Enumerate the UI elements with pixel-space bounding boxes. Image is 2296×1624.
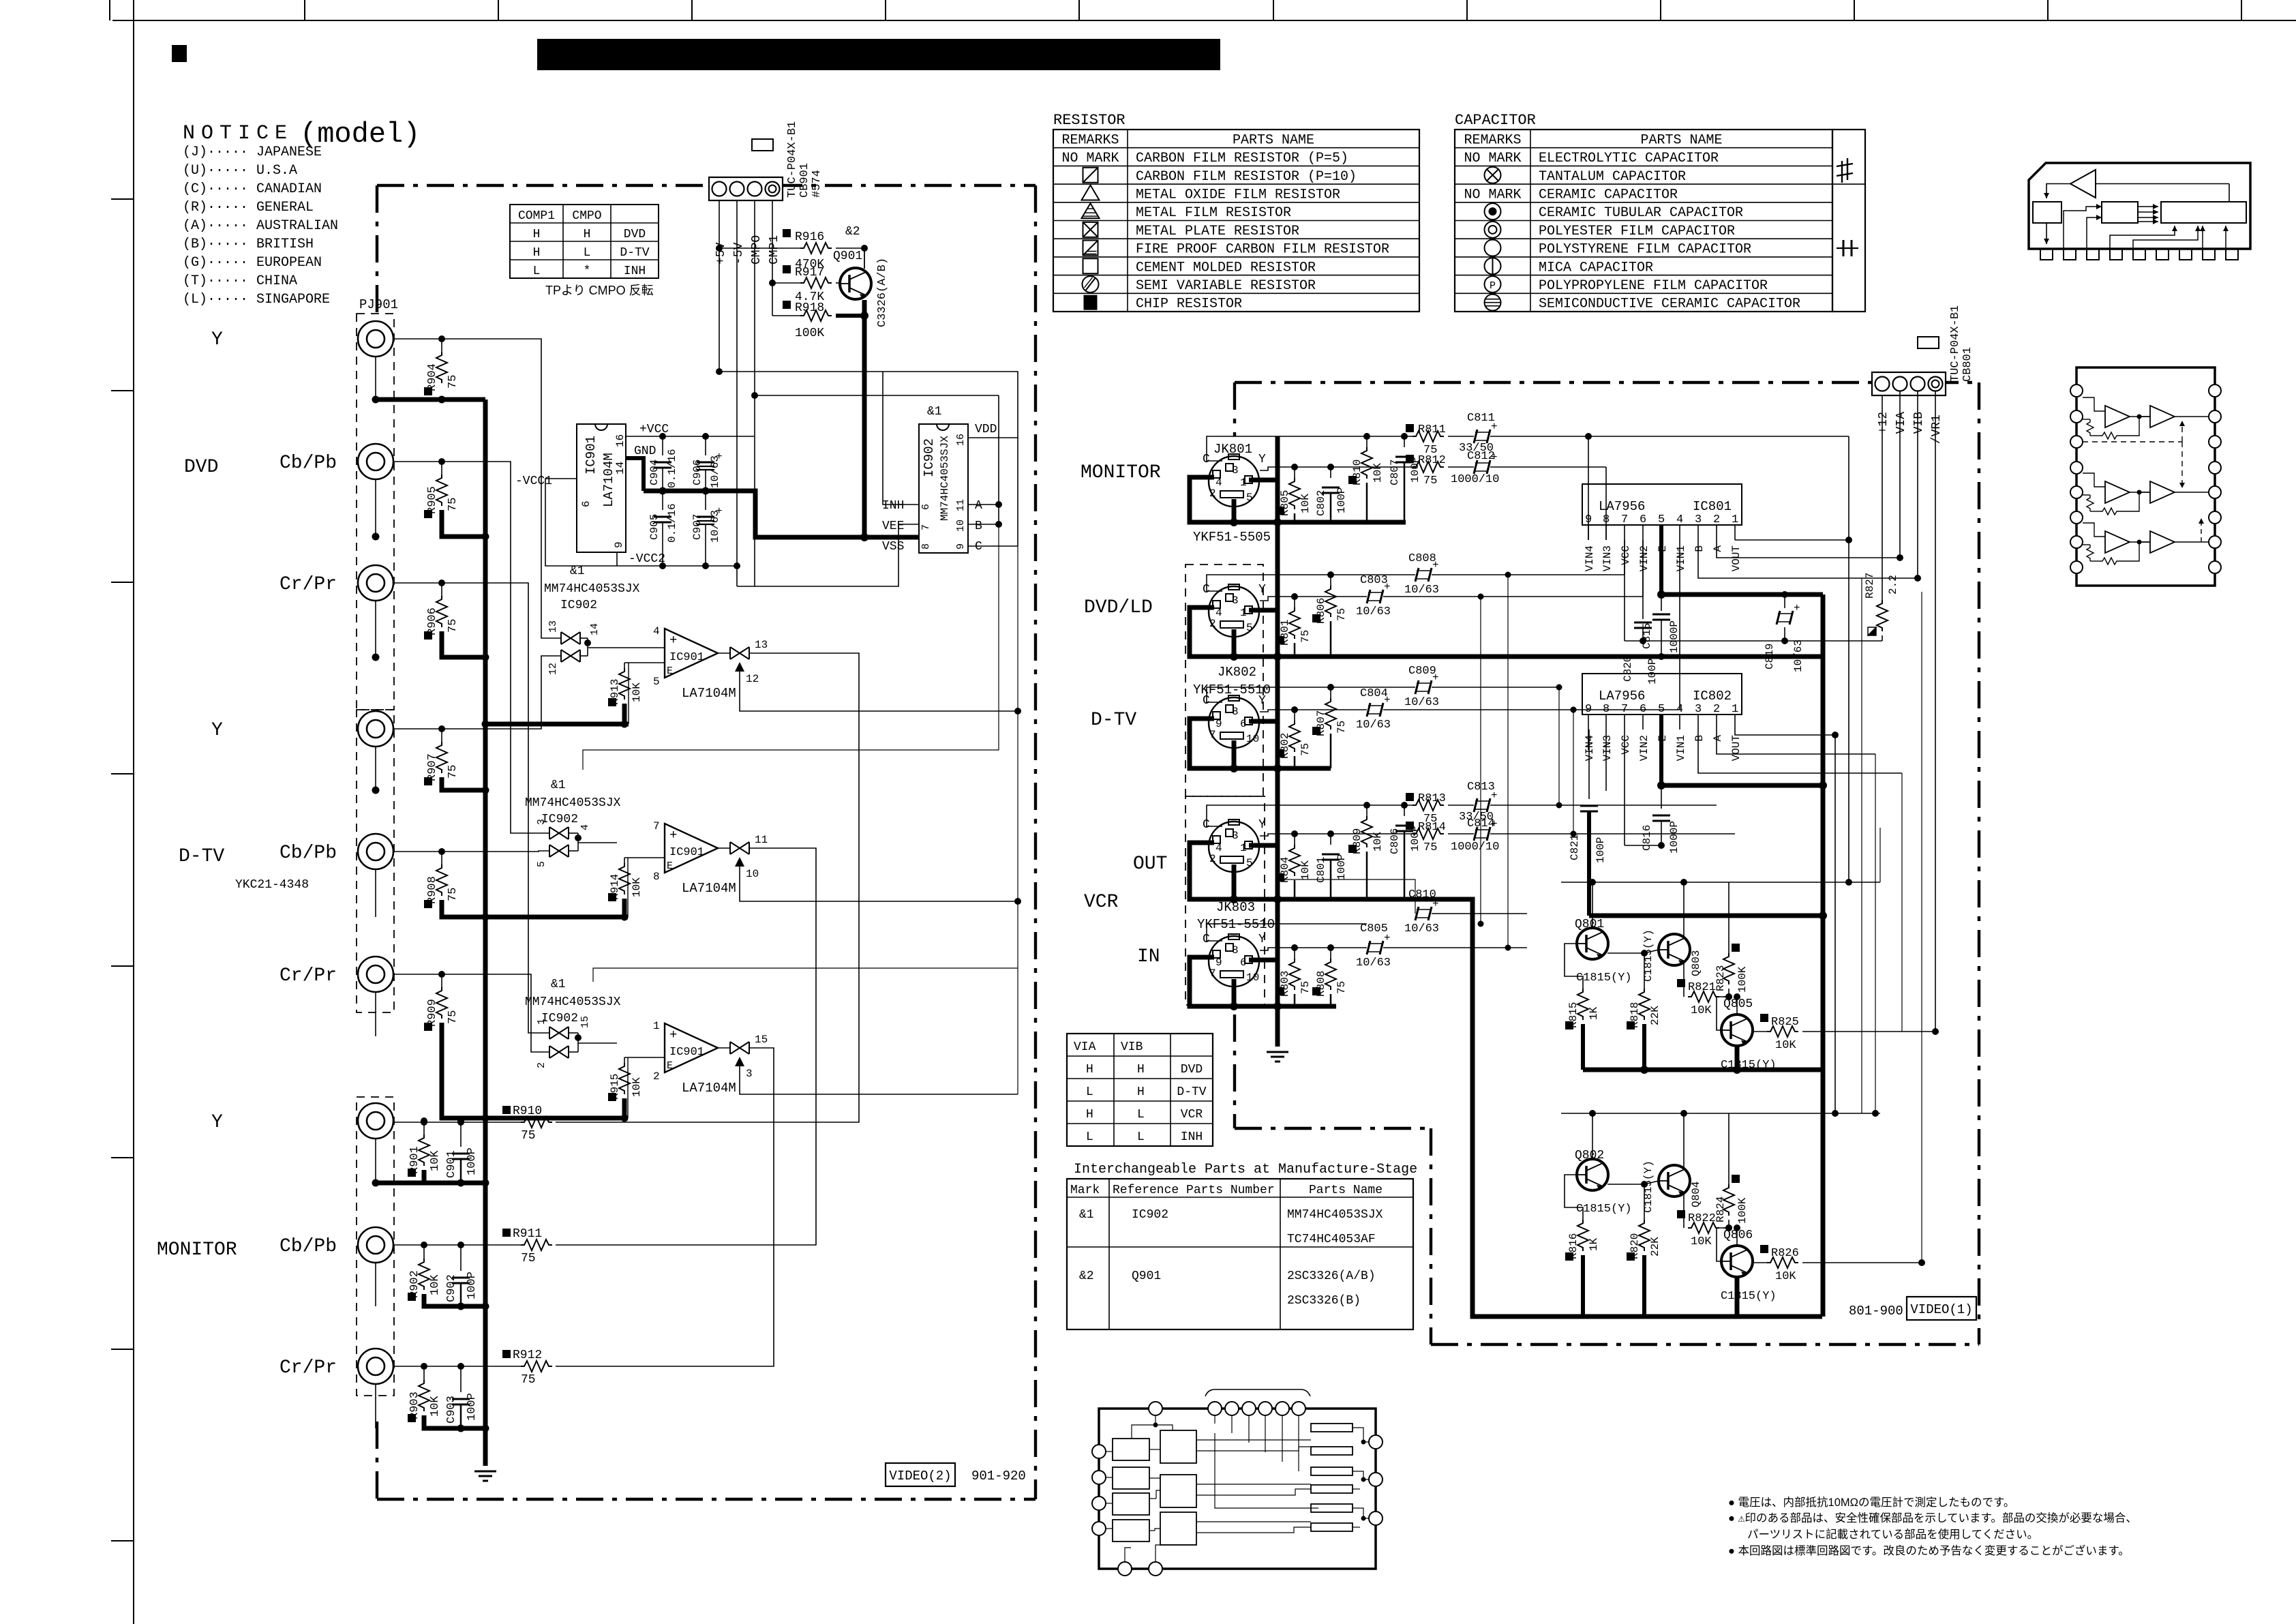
frame tick top 9 [1660, 0, 1661, 20]
svg-text:Y: Y [1258, 453, 1266, 466]
svg-text:4: 4 [653, 625, 660, 637]
svg-text:13: 13 [547, 620, 559, 633]
svg-text:R802: R802 [1279, 733, 1291, 759]
svg-text:7: 7 [1621, 513, 1628, 526]
CAPACITOR polarized symbol [1841, 161, 1843, 183]
capacitor C804 [1367, 703, 1370, 717]
svg-text:5: 5 [1658, 703, 1665, 716]
svg-text:(T)····· CHINA: (T)····· CHINA [183, 273, 297, 289]
svg-text:/VR1: /VR1 [1930, 415, 1944, 444]
svg-text:Q802: Q802 [1575, 1149, 1604, 1162]
svg-text:10K: 10K [1372, 832, 1384, 852]
svg-text:2SC3326(B): 2SC3326(B) [1287, 1294, 1361, 1308]
svg-text:100P: 100P [1646, 659, 1659, 685]
svg-text:R809: R809 [1351, 828, 1363, 854]
svg-text:2: 2 [1713, 703, 1720, 716]
capacitor C902 [460, 1245, 462, 1271]
CAPACITOR row 9 [1455, 292, 1832, 294]
svg-text:L: L [1137, 1108, 1145, 1122]
svg-text:REMARKS: REMARKS [1061, 132, 1119, 148]
wire q801 emitter [1607, 950, 1659, 953]
wire JK802b C line [1207, 687, 1415, 702]
table COMP1/CMPO frame [510, 205, 659, 278]
bottom left box 1 [1113, 1439, 1149, 1460]
table COMP1/CMPO lines [510, 222, 659, 224]
svg-text:Reference Parts Number: Reference Parts Number [1113, 1184, 1275, 1197]
block A wires [2046, 223, 2047, 244]
CAPACITOR row 4 [1455, 202, 1832, 203]
svg-text:10: 10 [1246, 733, 1259, 745]
capacitor C903 [460, 1366, 462, 1392]
svg-text:10K: 10K [631, 682, 643, 702]
wire dtv c out [1432, 687, 1559, 688]
wire JK801 Y line [1260, 467, 1413, 470]
svg-text:4: 4 [1676, 513, 1683, 526]
svg-text:VIN2: VIN2 [1638, 545, 1650, 571]
svg-text:75: 75 [447, 375, 459, 389]
jack PJ901-9 [358, 1349, 393, 1384]
capacitor C809 [1415, 680, 1419, 694]
capacitor C813 [1474, 798, 1477, 812]
wire q801 collector [1592, 882, 1593, 928]
page frame left rule [133, 0, 134, 1624]
capacitor C904 [662, 436, 663, 455]
svg-text:LA7956: LA7956 [1599, 689, 1645, 704]
svg-text:10/63: 10/63 [709, 510, 721, 543]
CAPACITOR row 3 [1455, 183, 1832, 185]
wire JK802 Y line [1260, 597, 1367, 601]
svg-text:Y: Y [1258, 694, 1266, 708]
svg-text:(L)····· SINGAPORE: (L)····· SINGAPORE [183, 292, 330, 307]
bottom mid box 1 [1160, 1430, 1196, 1463]
svg-text:C821: C821 [1569, 834, 1581, 860]
frame tick top 1 [109, 0, 110, 20]
svg-text:4: 4 [1215, 477, 1222, 489]
jack PJ901-4 [358, 711, 393, 747]
svg-text:1000/10: 1000/10 [1451, 473, 1499, 486]
wire jack9 chain [375, 1384, 376, 1428]
svg-text:4: 4 [1215, 842, 1222, 854]
svg-text:2: 2 [1209, 853, 1216, 865]
svg-text:7: 7 [653, 820, 660, 832]
svg-text:R803: R803 [1279, 971, 1291, 997]
bottom pin bot1 [1118, 1562, 1132, 1576]
frame tick left 5 [111, 965, 134, 967]
svg-text:TC74HC4053AF: TC74HC4053AF [1287, 1233, 1376, 1246]
svg-text:R918: R918 [795, 301, 824, 315]
svg-text:R807: R807 [1315, 710, 1327, 736]
LA7956 pin R2 [2209, 410, 2221, 423]
transistor Q801 [1577, 928, 1608, 959]
svg-text:10: 10 [955, 520, 967, 532]
svg-text:● ⚠印のある部品は、安全性確保部品を示しています。部品の交: ● ⚠印のある部品は、安全性確保部品を示しています。部品の交換が必要な場合、 [1728, 1512, 2137, 1524]
jack JK803 OUT [1209, 822, 1259, 872]
svg-text:5: 5 [653, 676, 660, 688]
wire opamp2 E [624, 857, 665, 858]
wire -VCC2 rail [616, 552, 618, 566]
svg-text:10K: 10K [1775, 1270, 1796, 1283]
svg-text:3: 3 [1695, 703, 1702, 716]
wire VIA drop [1899, 391, 1901, 558]
frame tick left 4 [111, 773, 134, 775]
svg-text:(J)····· JAPANESE: (J)····· JAPANESE [183, 145, 322, 160]
svg-text:Mark: Mark [1070, 1184, 1100, 1197]
bottom wires verticals [1215, 1433, 1318, 1508]
svg-text:IC801: IC801 [1693, 499, 1732, 514]
svg-text:Y: Y [1258, 818, 1266, 832]
svg-text:INH: INH [882, 499, 904, 513]
CB901 pin 3 [748, 182, 762, 196]
svg-text:Cr/Pr: Cr/Pr [280, 1357, 337, 1379]
CB801 pin 2 [1893, 377, 1907, 391]
wire +5V [719, 200, 720, 372]
svg-text:14: 14 [614, 462, 626, 475]
capacitor C907 [705, 491, 706, 510]
wire JK803i Y line [1260, 948, 1367, 950]
svg-text:C3326(A/B): C3326(A/B) [876, 258, 889, 327]
resistor R918 [772, 315, 800, 316]
svg-text:VIN3: VIN3 [1601, 545, 1614, 571]
svg-text:C820: C820 [1622, 656, 1634, 682]
svg-text:1: 1 [1732, 513, 1738, 526]
svg-text:PJ901: PJ901 [359, 297, 398, 312]
wire jack1 stem [375, 357, 376, 400]
LA7956 pin L6 [2070, 511, 2083, 524]
svg-text:OUT: OUT [1133, 854, 1167, 875]
resistor R908 [441, 852, 442, 864]
wire R908 rail [442, 900, 485, 917]
bottom pin cluster 6 [1292, 1402, 1305, 1415]
wire R915 rail [624, 1098, 628, 1118]
resistor R905 [441, 462, 442, 475]
svg-text:(A)····· AUSTRALIAN: (A)····· AUSTRALIAN [183, 218, 338, 234]
switch S1a [561, 632, 580, 644]
RESISTOR row 5 [1053, 220, 1419, 222]
svg-text:1K: 1K [1588, 1237, 1600, 1251]
svg-text:1: 1 [536, 1019, 547, 1025]
wire A pin [968, 504, 999, 505]
svg-text:75: 75 [447, 498, 459, 511]
svg-text:75: 75 [447, 765, 459, 779]
resistor R904 [441, 339, 442, 352]
svg-text:RESISTOR: RESISTOR [1053, 112, 1126, 129]
svg-text:11: 11 [955, 499, 967, 511]
svg-text:R909: R909 [426, 999, 439, 1027]
frame tick top 10 [1854, 0, 1855, 20]
svg-text:10K: 10K [1299, 494, 1312, 513]
svg-text:C811: C811 [1467, 412, 1495, 425]
wire jack7 rail joint [376, 1181, 424, 1186]
svg-text:COMP1: COMP1 [518, 209, 555, 223]
svg-text:R811: R811 [1418, 423, 1446, 436]
wire IC802 E rail [1661, 783, 1822, 788]
bottom diagram brace [1205, 1389, 1310, 1396]
resistor R813 [1413, 800, 1444, 811]
wire vcro y out [1448, 833, 1474, 834]
svg-text:10K: 10K [1691, 1235, 1712, 1248]
svg-text:3: 3 [1232, 595, 1239, 607]
svg-text:8: 8 [1603, 703, 1610, 716]
svg-text:2: 2 [653, 1070, 660, 1083]
bottom left box 2 [1113, 1467, 1149, 1489]
svg-text:10/63: 10/63 [1792, 640, 1804, 672]
svg-text:1000P: 1000P [1668, 620, 1680, 653]
wire jack7 stem [375, 1139, 376, 1183]
resistor R807 [1330, 687, 1331, 698]
svg-text:2: 2 [1713, 513, 1720, 526]
jack JK802 [1209, 586, 1259, 637]
resistor R903 [423, 1366, 425, 1380]
right block border left a [1233, 382, 1236, 436]
capacitor C808 [1415, 568, 1419, 582]
bottom right rect 6 [1311, 1523, 1353, 1531]
wire INH [883, 372, 919, 505]
svg-text:R822: R822 [1688, 1212, 1716, 1225]
switch S2a [549, 827, 569, 839]
svg-text:10K: 10K [1691, 1004, 1712, 1017]
svg-text:2: 2 [1209, 487, 1216, 500]
jack PJ901-1 [358, 321, 393, 357]
svg-text:R916: R916 [795, 230, 824, 244]
svg-text:FIRE PROOF CARBON FILM RESISTO: FIRE PROOF CARBON FILM RESISTOR [1136, 242, 1389, 258]
wire q801 base [1561, 882, 1577, 944]
LA7956 pin R5 [2209, 486, 2221, 498]
bottom pin cluster 5 [1275, 1402, 1289, 1415]
IC pin 6 top-right [2156, 249, 2169, 260]
capacitor C803 [1367, 590, 1370, 603]
svg-text:C802: C802 [1315, 490, 1327, 516]
svg-text:C902: C902 [445, 1274, 458, 1302]
frame tick top 11 [2047, 0, 2049, 20]
analog switch IC902 package box [919, 424, 968, 553]
JK802b rail [1190, 719, 1331, 768]
svg-text:METAL PLATE RESISTOR: METAL PLATE RESISTOR [1136, 224, 1299, 239]
resistor R907 [441, 729, 442, 742]
svg-text:R914: R914 [609, 874, 621, 900]
bottom wires l2m [1149, 1449, 1160, 1450]
resistor R810 [1366, 436, 1368, 447]
svg-text:Interchangeable Parts at Manuf: Interchangeable Parts at Manufacture-Sta… [1074, 1162, 1417, 1177]
svg-text:INH: INH [624, 265, 646, 278]
CAPACITOR row 6 [1455, 238, 1832, 239]
arrow B-C 4 [2138, 221, 2158, 222]
svg-text:VIN3: VIN3 [1601, 735, 1614, 761]
svg-text:Q901: Q901 [1132, 1269, 1161, 1283]
jack PJ901-2 [358, 444, 393, 479]
wire VIN wires 802 [1588, 730, 1589, 750]
JK802 rail [1190, 607, 1331, 657]
svg-text:+: + [669, 1027, 677, 1042]
svg-text:IC802: IC802 [1693, 689, 1732, 704]
svg-text:1: 1 [1732, 703, 1738, 716]
ground symbol right [1267, 1051, 1288, 1053]
JK801 rail [1190, 477, 1406, 522]
svg-text:6: 6 [920, 504, 932, 510]
svg-text:H: H [533, 228, 541, 241]
RESISTOR row 7 [1053, 256, 1419, 258]
wire sel arrow 3 [740, 1083, 1018, 1094]
bottom pin left 2 [1092, 1471, 1106, 1484]
svg-text:100P: 100P [466, 1272, 479, 1299]
resistor R818 [1644, 953, 1645, 989]
svg-text:Q801: Q801 [1575, 918, 1604, 931]
svg-text:R906: R906 [426, 607, 439, 635]
svg-text:3: 3 [1695, 513, 1702, 526]
CB901 pin 1 [712, 182, 727, 196]
svg-text:L: L [584, 246, 591, 260]
capacitor C810 [1415, 907, 1419, 920]
bottom pin right 3 [1369, 1512, 1383, 1525]
transistor rail 1 [1583, 1068, 1822, 1072]
right thick bus v [1821, 595, 1826, 1317]
resistor R820 [1644, 1184, 1645, 1220]
frame tick left 2 [111, 390, 134, 391]
svg-text:CERAMIC TUBULAR CAPACITOR: CERAMIC TUBULAR CAPACITOR [1539, 205, 1743, 221]
svg-text:L: L [1137, 1130, 1145, 1144]
svg-text:L: L [1086, 1085, 1093, 1099]
LA7956 pin L7 [2070, 536, 2083, 548]
la7956 IC801 box [1582, 484, 1742, 525]
wire mid v3 [1558, 687, 1560, 805]
wire out3 route [556, 1048, 774, 1366]
svg-text:C803: C803 [1360, 574, 1388, 587]
svg-text:22K: 22K [1649, 1237, 1661, 1257]
resistor R827 [1882, 391, 1883, 600]
la7956 IC802 box [1582, 674, 1742, 715]
wire q802 top [1561, 1113, 1880, 1114]
svg-text:C805: C805 [1360, 922, 1388, 935]
svg-text:#574: #574 [811, 170, 824, 198]
svg-text:CMPO: CMPO [750, 235, 764, 265]
svg-text:1: 1 [1240, 842, 1247, 854]
block A [2033, 202, 2061, 223]
resistor R804 [1294, 834, 1295, 845]
bottom wires cluster2 [1215, 1423, 1311, 1424]
svg-text:16: 16 [614, 434, 626, 447]
resistor R917 [772, 282, 800, 284]
IC pin 4 top-right [2110, 249, 2122, 260]
bottom wires left [1105, 1451, 1113, 1452]
svg-text:MM74HC4053SJX: MM74HC4053SJX [525, 995, 621, 1009]
left block border top [377, 184, 1036, 187]
wire jack6 chain [375, 992, 376, 1036]
svg-text:10K: 10K [631, 877, 643, 897]
svg-text:JK802: JK802 [1218, 665, 1256, 680]
resistor R805 [1294, 467, 1295, 478]
resistor R811 [1413, 431, 1444, 442]
svg-text:C808: C808 [1408, 552, 1436, 565]
wire B pin [968, 524, 999, 525]
svg-text:3: 3 [746, 1068, 753, 1080]
svg-text:2SC3326(A/B): 2SC3326(A/B) [1287, 1269, 1376, 1283]
jack JK801 [1209, 456, 1259, 507]
wire q806 base [1717, 1228, 1729, 1261]
wire VR1 drop [1935, 391, 1936, 1032]
CB801 pin 4 [1929, 377, 1943, 391]
svg-text:CB801: CB801 [1961, 347, 1974, 382]
svg-text:C1815(Y): C1815(Y) [1576, 972, 1632, 984]
wire R902 rail [424, 1294, 485, 1306]
svg-text:VOUT: VOUT [1730, 735, 1742, 761]
svg-text:Y: Y [211, 329, 223, 350]
black index square [172, 45, 187, 62]
resistor R806 [1330, 575, 1331, 586]
svg-text:C906: C906 [691, 460, 704, 485]
svg-text:C812: C812 [1467, 450, 1495, 463]
svg-text:VOUT: VOUT [1730, 545, 1742, 571]
svg-text:13: 13 [755, 639, 768, 651]
svg-text:*: * [584, 265, 591, 278]
svg-text:R902: R902 [408, 1270, 421, 1298]
svg-text:Q804: Q804 [1690, 1182, 1702, 1207]
capacitor C821 [1588, 730, 1590, 799]
wire route v4 [393, 656, 561, 729]
svg-text:R806: R806 [1315, 598, 1327, 624]
svg-text:VIN1: VIN1 [1675, 735, 1687, 761]
switch S1b [561, 650, 580, 662]
capacitor C801 [1330, 834, 1331, 845]
svg-text:7: 7 [920, 524, 932, 530]
LA7956 pin L1 [2070, 385, 2083, 397]
PJ901 dashed box MONITOR [357, 1097, 394, 1396]
svg-text:VIN1: VIN1 [1675, 545, 1687, 571]
svg-text:10K: 10K [429, 1274, 442, 1295]
svg-text:H: H [1137, 1063, 1145, 1077]
switch S3a [549, 1027, 569, 1039]
wire B1 [1698, 540, 1918, 578]
svg-text:METAL OXIDE FILM RESISTOR: METAL OXIDE FILM RESISTOR [1136, 187, 1340, 202]
wire q801 top [1561, 882, 1880, 883]
svg-text:8: 8 [653, 871, 660, 883]
svg-text:9: 9 [1215, 718, 1222, 730]
svg-text:A: A [1712, 735, 1724, 742]
svg-text:TUC-P04X-B1: TUC-P04X-B1 [786, 121, 799, 198]
LA7956 internal outline [2076, 367, 2215, 586]
svg-text:R904: R904 [426, 363, 439, 391]
switch S2out [718, 847, 730, 849]
svg-text:10/63: 10/63 [1404, 922, 1439, 935]
wire opamp1 E [624, 662, 665, 663]
wire JK803o Y line [1260, 834, 1413, 836]
transistor Q805 [1721, 1014, 1753, 1046]
wire q802 emitter [1607, 1181, 1659, 1184]
ground symbol left [474, 1471, 496, 1473]
PJ901 dashed box D-TV [357, 710, 394, 1012]
resistor R910 [393, 1122, 521, 1123]
svg-text:6: 6 [1240, 957, 1247, 969]
right block border right [1978, 382, 1980, 1344]
svg-text:R808: R808 [1315, 971, 1327, 997]
svg-text:パーツリストに記載されている部品を使用してください。: パーツリストに記載されている部品を使用してください。 [1747, 1528, 2038, 1541]
bottom pin cluster 4 [1258, 1402, 1272, 1415]
svg-text:10K: 10K [1372, 463, 1384, 483]
wire R914 rail [624, 899, 628, 917]
CAPACITOR row 2 [1455, 165, 1832, 166]
wire q803 collector [1683, 882, 1685, 938]
svg-text:100P: 100P [1595, 837, 1607, 863]
resistor R825 [1753, 1031, 1767, 1032]
CAPACITOR row 5 [1455, 220, 1832, 222]
wire select vertical a [998, 395, 999, 524]
svg-text:IC901: IC901 [669, 1046, 704, 1059]
svg-text:SEMICONDUCTIVE CERAMIC CAPACIT: SEMICONDUCTIVE CERAMIC CAPACITOR [1539, 297, 1800, 312]
op-amp IC901 B [665, 824, 718, 873]
svg-text:VIN2: VIN2 [1638, 735, 1650, 761]
arrow B-C 2 [2138, 211, 2158, 213]
svg-text:CMPO: CMPO [572, 209, 601, 223]
LA7956 pin R8 [2209, 561, 2221, 573]
resistor R916 [719, 247, 800, 249]
